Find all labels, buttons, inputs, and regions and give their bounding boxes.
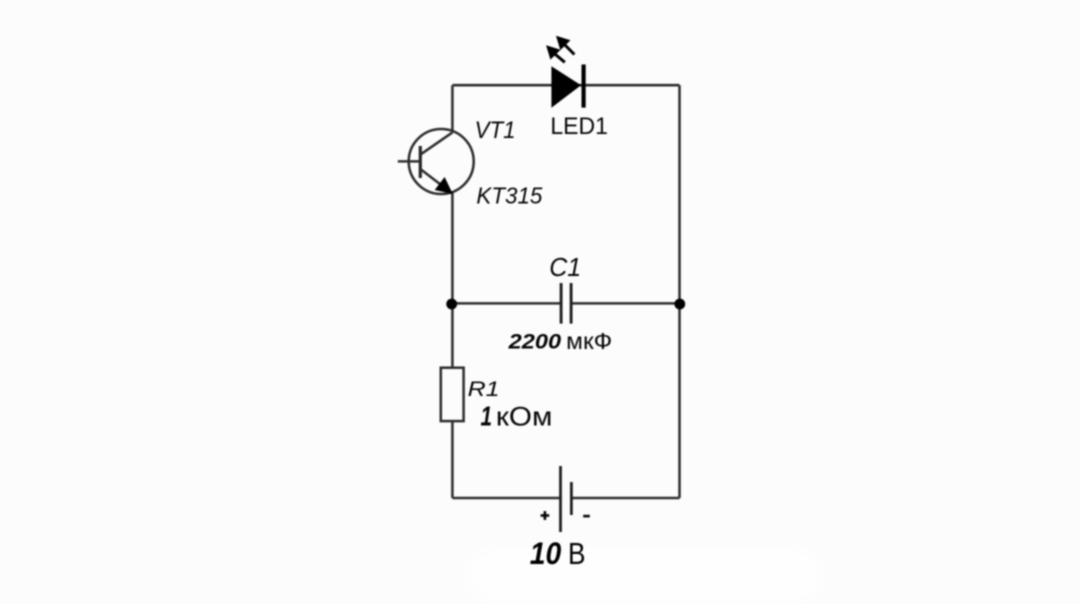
svg-text:2200: 2200 (508, 328, 562, 353)
wire top (collector to LED anode to right rail) (452, 84, 679, 87)
LED light arrow lower (548, 47, 565, 63)
wire capacitor branch right (572, 302, 680, 305)
svg-text:VT1: VT1 (475, 117, 516, 144)
wire bottom right (battery - to right rail) (571, 497, 679, 500)
svg-text:C1: C1 (549, 252, 581, 282)
svg-text:KT315: KT315 (476, 183, 542, 209)
svg-text:LED1: LED1 (550, 114, 608, 140)
wire left rail (451, 85, 454, 498)
battery minus label (583, 515, 590, 518)
wire bottom left (to battery +) (452, 497, 560, 500)
svg-text:1: 1 (481, 400, 493, 431)
svg-text:кОм: кОм (496, 401, 553, 431)
svg-text:В: В (568, 536, 586, 571)
battery GB1 plates (561, 466, 572, 532)
wire capacitor branch left (452, 302, 560, 305)
node A (left junction dot) (446, 299, 457, 310)
wire right rail (678, 85, 681, 498)
LED light arrow upper (558, 37, 575, 54)
watermark light blob (470, 552, 820, 598)
capacitor C1 plates (561, 283, 571, 324)
svg-text:мкФ: мкФ (566, 328, 612, 354)
LED LED1 symbol (551, 65, 583, 108)
resistor R1 body (441, 368, 464, 421)
battery plus label (541, 511, 550, 520)
node B (right junction dot) (674, 299, 685, 310)
transistor VT1 (398, 129, 474, 194)
svg-text:R1: R1 (468, 377, 500, 401)
svg-text:10: 10 (530, 535, 562, 571)
